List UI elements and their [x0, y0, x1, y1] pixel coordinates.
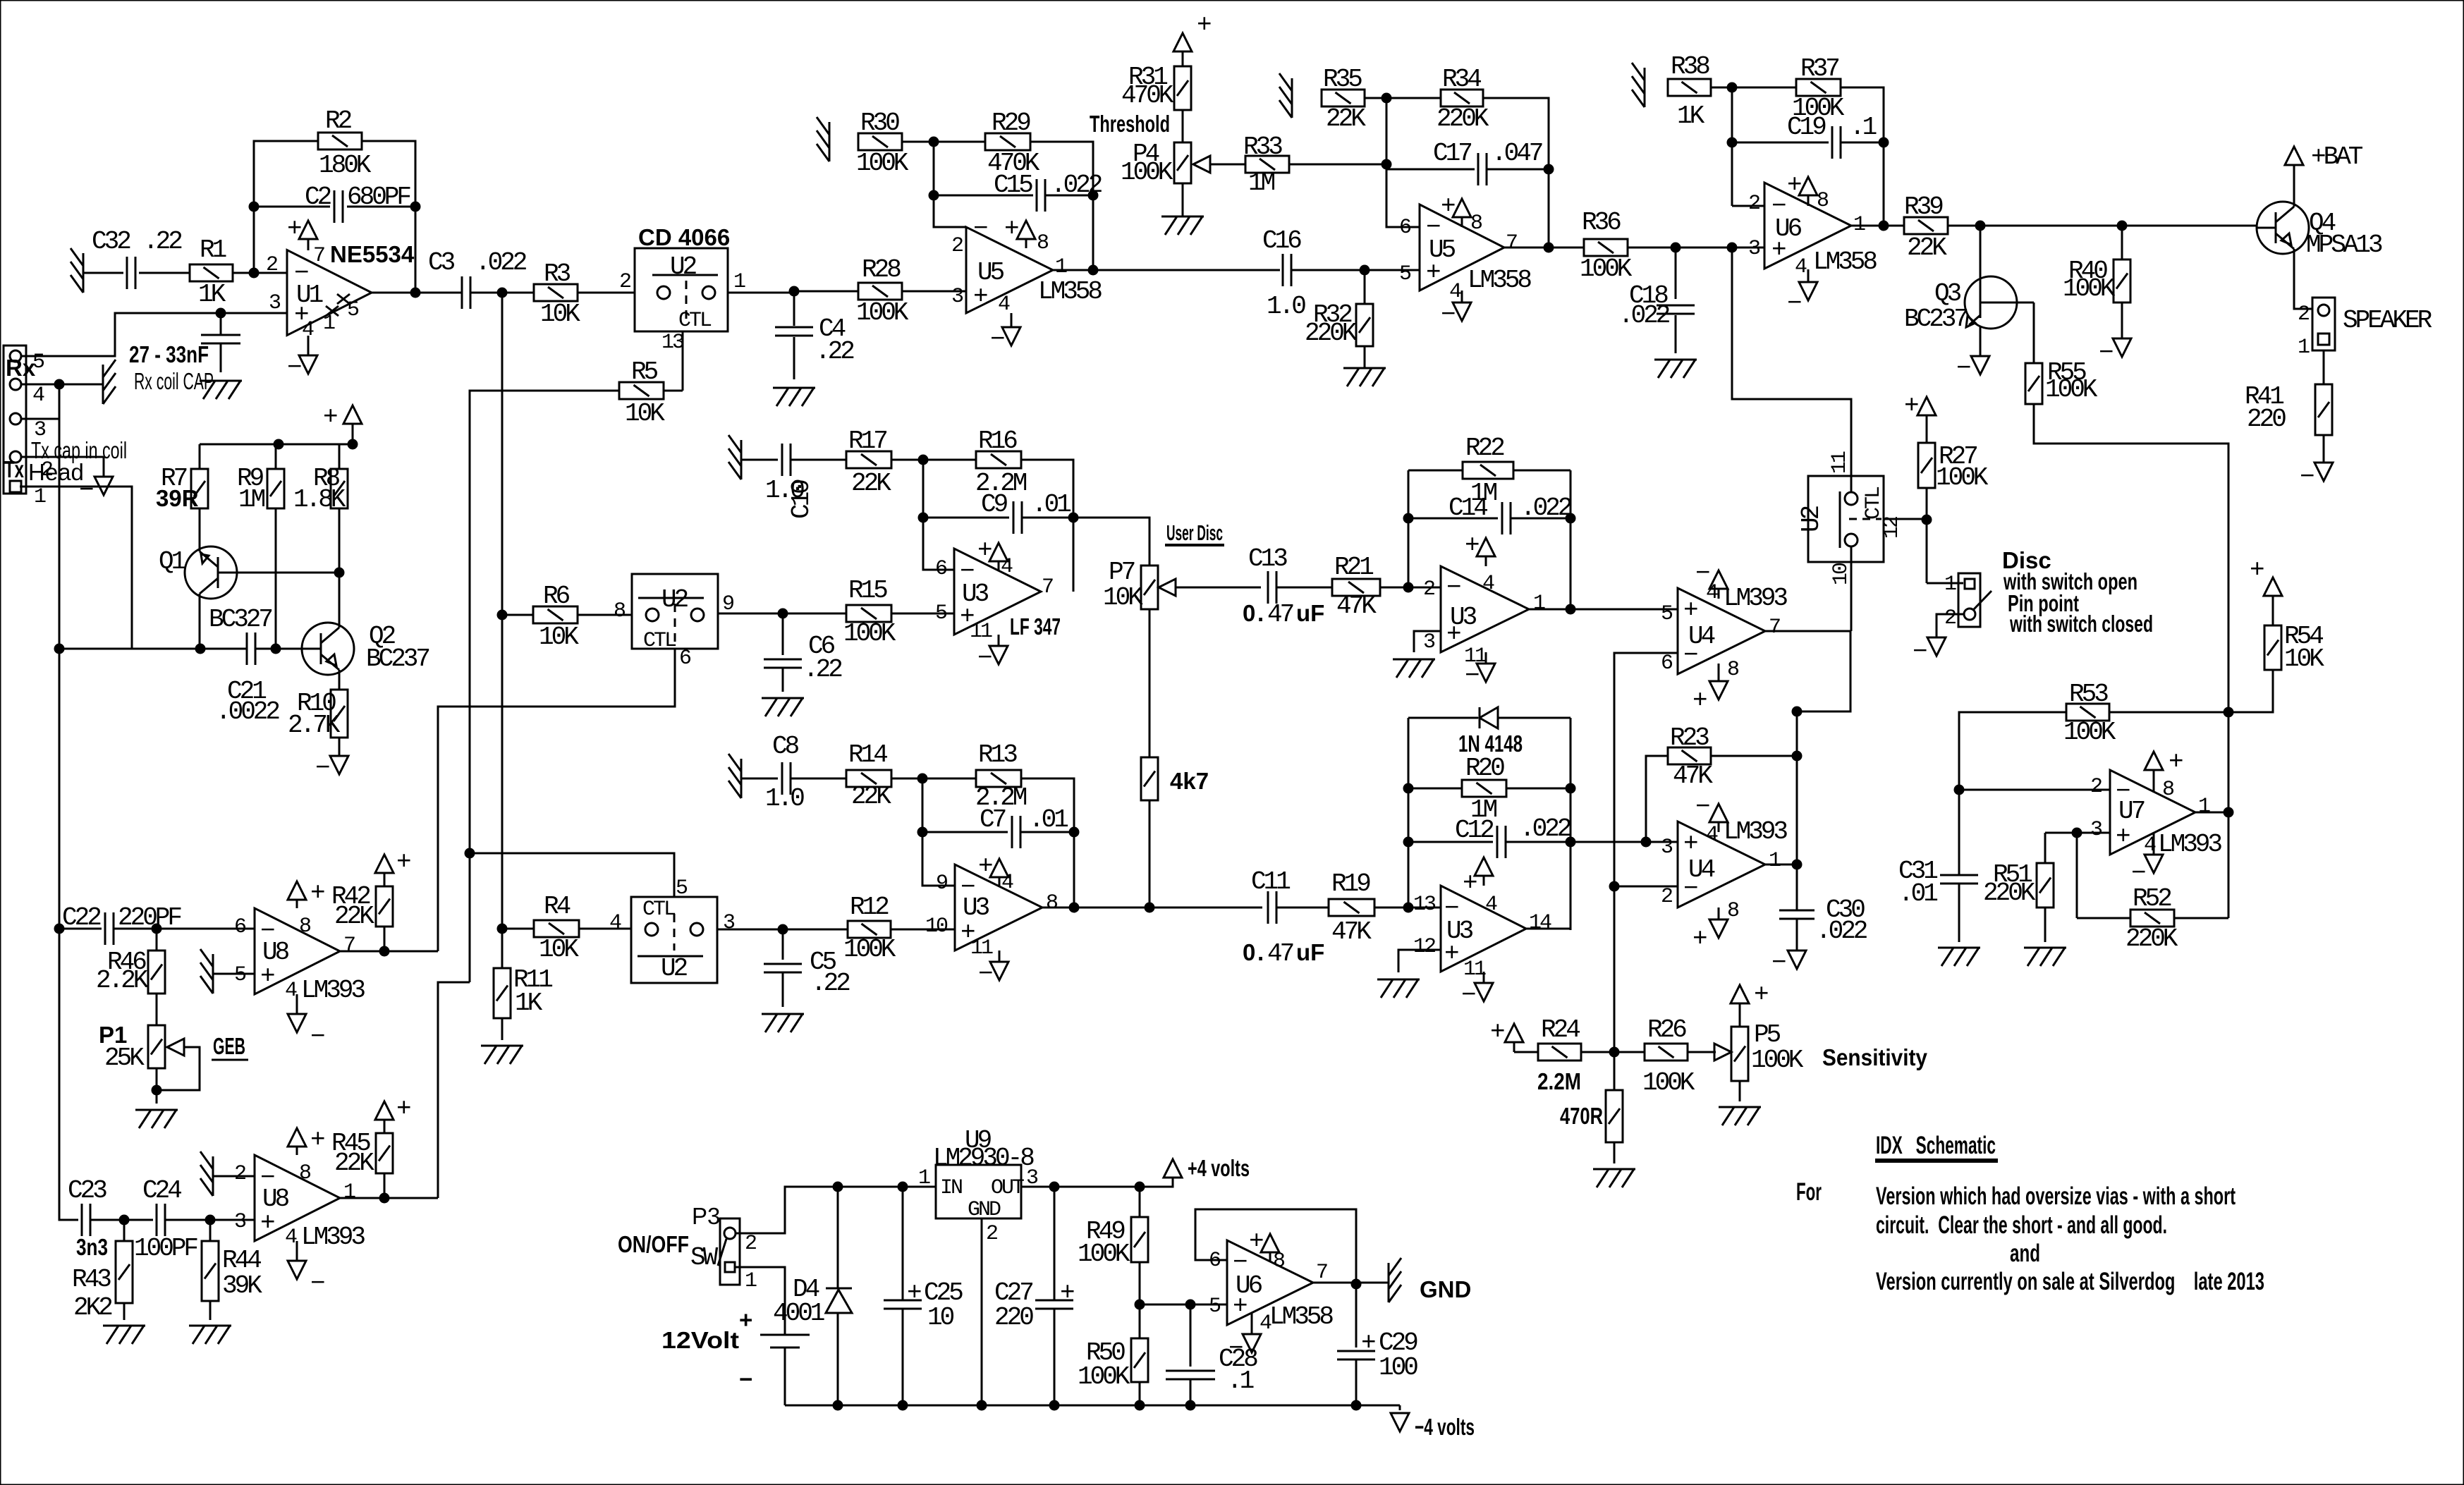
svg-text:Version which had oversize via: Version which had oversize vias - with a… [1876, 1182, 2236, 1210]
svg-text:.22: .22 [143, 227, 182, 256]
junction [1954, 785, 1965, 795]
svg-text:0: 0 [1243, 939, 1255, 965]
svg-text:.22: .22 [815, 337, 854, 366]
U3d V+ [1483, 876, 1485, 886]
capacitor C21 [246, 632, 248, 665]
svg-text:LM393: LM393 [1724, 817, 1787, 846]
transistor Q1 BC327 [185, 546, 237, 599]
svg-text:+: + [907, 1278, 921, 1307]
svg-text:8: 8 [299, 1161, 311, 1185]
svg-text:R21: R21 [1334, 553, 1373, 582]
svg-text:100K: 100K [1121, 158, 1173, 187]
svg-text:3: 3 [2090, 818, 2102, 842]
capacitor C16 [1282, 254, 1284, 286]
junction [1403, 783, 1414, 794]
junction [465, 848, 475, 859]
svg-text:6: 6 [1661, 652, 1673, 676]
resistor R30 [858, 133, 902, 150]
svg-text:−: − [1444, 894, 1458, 923]
U4b V- top [1718, 822, 1720, 832]
svg-text:9: 9 [936, 872, 947, 896]
svg-text:R19: R19 [1331, 869, 1370, 898]
svg-text:C11: C11 [1251, 867, 1290, 896]
svg-text:BC237: BC237 [1904, 305, 1967, 334]
R24 V+ arrow [1505, 1024, 1523, 1042]
resistor 4k7 [1141, 757, 1158, 800]
op-amp U6 second [1227, 1240, 1313, 1325]
svg-text:R13: R13 [978, 740, 1017, 769]
svg-text:+: + [1426, 258, 1440, 287]
net C3 vertical [501, 293, 504, 929]
U4a V- top [1718, 589, 1720, 599]
wire P3 pin1 [735, 1267, 785, 1326]
resistor R35 [1322, 90, 1365, 106]
TX V+ arrow [352, 424, 354, 444]
wire R22 right [1513, 470, 1571, 472]
svg-text:+: + [1693, 924, 1707, 953]
svg-text:4001: 4001 [773, 1299, 824, 1328]
svg-text:LM358: LM358 [1468, 266, 1531, 295]
junction [1135, 1300, 1145, 1310]
svg-text:10K: 10K [1103, 583, 1143, 612]
junction [1351, 1279, 1362, 1290]
svg-text:with switch closed: with switch closed [2009, 611, 2153, 637]
svg-text:−: − [973, 214, 987, 243]
resistor R51 [2037, 863, 2054, 908]
wire U4a pin6 [1614, 653, 1678, 1052]
wire base net down [339, 573, 341, 623]
svg-text:C19: C19 [1787, 113, 1826, 142]
svg-text:R35: R35 [1323, 65, 1362, 94]
junction [1641, 837, 1652, 848]
svg-text:+: + [1463, 869, 1477, 898]
junction [1069, 827, 1080, 838]
svg-text:100K: 100K [1078, 1362, 1130, 1391]
wire U1 out [372, 292, 462, 294]
wire U9 out rail [1021, 1178, 1173, 1187]
svg-text:4k7: 4k7 [1170, 768, 1209, 794]
ground C32 [83, 253, 85, 293]
R31 V+ arrow [1182, 51, 1184, 66]
junction [1068, 513, 1079, 523]
svg-text:22K: 22K [334, 1149, 374, 1178]
resistor R7 [191, 469, 208, 508]
svg-text:+: + [977, 536, 992, 565]
U6b V- [1251, 1312, 1253, 1334]
ground U6b out [1388, 1263, 1390, 1302]
wire R32 gnd [1364, 346, 1366, 368]
net U7 out vertical [2228, 712, 2230, 918]
svg-text:100PF: 100PF [134, 1234, 197, 1263]
junction [898, 1182, 908, 1192]
svg-text:C7: C7 [980, 805, 1006, 834]
svg-text:LM358: LM358 [1038, 277, 1102, 306]
svg-text:C23: C23 [68, 1176, 106, 1205]
svg-text:−: − [1461, 981, 1475, 1010]
svg-text:−: − [1683, 641, 1697, 670]
junction [917, 827, 928, 838]
U6b V+ [1269, 1252, 1271, 1262]
svg-text:12: 12 [1880, 517, 1904, 539]
capacitor C23 [81, 1204, 83, 1236]
resistor R41 [2315, 384, 2332, 435]
svg-text:+: + [323, 403, 337, 432]
junction [195, 644, 206, 654]
svg-text:8: 8 [1727, 658, 1739, 682]
wire R52 wires [2077, 917, 2130, 919]
svg-text:R5: R5 [631, 357, 658, 386]
svg-text:4: 4 [998, 293, 1010, 317]
svg-text:8: 8 [299, 915, 311, 939]
wire R13 right [1021, 778, 1074, 908]
wire C12row right [1571, 841, 1678, 843]
wire pin2 [21, 456, 104, 458]
wire Q1 base [237, 572, 339, 574]
wire R16 right [1021, 460, 1073, 592]
ground R43 [103, 1325, 145, 1327]
diode D 1N4148 [1408, 717, 1478, 719]
svg-text:−: − [1465, 661, 1479, 690]
ground P1 [135, 1109, 178, 1111]
svg-text:4: 4 [1482, 572, 1494, 596]
svg-text:11: 11 [970, 936, 993, 960]
svg-text:100K: 100K [843, 619, 896, 648]
P7 wiper [1159, 579, 1176, 596]
svg-text:7: 7 [313, 244, 324, 268]
junction [1135, 1182, 1145, 1192]
junction [1135, 1400, 1145, 1411]
U5b V+ [1461, 217, 1463, 227]
svg-text:.022: .022 [1618, 301, 1670, 330]
svg-text:BC237: BC237 [366, 644, 429, 673]
U4b V+ bot [1718, 908, 1720, 919]
capacitor C13 [1267, 571, 1269, 604]
junction [1544, 243, 1554, 253]
resistor R8 [331, 469, 348, 508]
svg-text:+: + [1904, 391, 1918, 420]
capacitor C7 [922, 831, 1008, 833]
svg-text:4: 4 [1485, 893, 1497, 917]
wire R29 right [1030, 142, 1093, 270]
svg-text:Sensitivity: Sensitivity [1822, 1044, 1928, 1070]
svg-text:−4 volts: −4 volts [1415, 1414, 1475, 1440]
svg-text:10K: 10K [539, 623, 579, 652]
svg-text:100K: 100K [2045, 375, 2098, 404]
net C7 left [922, 778, 955, 886]
svg-text:2: 2 [2298, 302, 2309, 326]
wire U7 pin3 [2045, 832, 2110, 834]
wire U6a pin2 [1732, 205, 1764, 207]
svg-text:1: 1 [1769, 849, 1781, 873]
R45 V+ arrow [384, 1120, 386, 1133]
svg-text:IDX Schematic: IDX Schematic [1876, 1132, 1996, 1159]
U7 V+ [2153, 770, 2155, 793]
wire Q1 emitter [199, 599, 201, 649]
svg-text:U2: U2 [661, 954, 688, 983]
resistor R36 [1584, 239, 1628, 256]
wire U6a out [1851, 225, 1904, 227]
svg-text:R24: R24 [1541, 1015, 1580, 1044]
resistor R49 [1131, 1217, 1148, 1262]
junction [1727, 137, 1738, 148]
svg-text:2: 2 [986, 1222, 997, 1246]
wire P3-rail [736, 1187, 936, 1233]
svg-text:3: 3 [723, 911, 735, 935]
svg-text:C16: C16 [1262, 226, 1301, 255]
junction [1185, 1300, 1196, 1310]
svg-text:220: 220 [994, 1303, 1033, 1332]
wire R51 top [2044, 833, 2047, 863]
wire R12-pin10 [891, 929, 955, 931]
wire R53 right [2109, 711, 2228, 714]
svg-text:12Volt: 12Volt [661, 1327, 739, 1353]
svg-text:P7: P7 [1109, 558, 1135, 587]
junction [119, 1215, 130, 1226]
U4a V+ bot [1718, 664, 1720, 681]
resistor R33 [1245, 156, 1289, 173]
svg-text:.022: .022 [1816, 917, 1867, 946]
svg-text:3n3: 3n3 [76, 1234, 108, 1260]
capacitor C18 [1675, 248, 1677, 299]
svg-text:4: 4 [1260, 1312, 1271, 1336]
wire head row [59, 648, 247, 650]
resistor R34 [1441, 90, 1483, 106]
svg-text:7: 7 [1769, 616, 1780, 640]
svg-text:C32: C32 [92, 227, 130, 256]
svg-text:1.0: 1.0 [1267, 292, 1305, 321]
svg-text:R2: R2 [325, 106, 352, 135]
svg-text:1: 1 [918, 1166, 930, 1190]
svg-text:8: 8 [1046, 891, 1058, 915]
svg-text:100K: 100K [1751, 1046, 1804, 1075]
+4 volts arrow [1164, 1159, 1182, 1178]
ground R30 [829, 122, 831, 161]
svg-text:47K: 47K [1331, 917, 1372, 946]
svg-text:22K: 22K [1907, 233, 1947, 262]
svg-text:ON/OFF: ON/OFF [618, 1231, 689, 1257]
R42 V+ arrow [384, 873, 386, 886]
svg-text:−: − [1228, 1334, 1243, 1363]
svg-text:GND: GND [1420, 1276, 1471, 1302]
svg-text:U2: U2 [670, 252, 697, 281]
svg-text:4: 4 [1706, 823, 1718, 847]
wire P7 down [1149, 609, 1151, 757]
potentiometer P1 [148, 1025, 165, 1068]
wire R39 right [1948, 225, 2257, 227]
svg-text:3: 3 [1661, 836, 1673, 860]
svg-text:100K: 100K [1078, 1240, 1130, 1269]
resistor R29 [985, 133, 1030, 150]
junction [1145, 903, 1155, 913]
resistor R39 [1904, 217, 1948, 234]
wire R55 down [2034, 404, 2228, 712]
resistor R19 [1329, 899, 1374, 916]
svg-text:12: 12 [1413, 935, 1435, 959]
wire R52 left [2076, 833, 2078, 918]
svg-text:C17: C17 [1433, 139, 1471, 168]
svg-text:10K: 10K [2284, 644, 2324, 673]
wire pin4 [21, 384, 103, 386]
resistor R10 [331, 690, 348, 738]
op-amp U5 first [966, 227, 1053, 313]
svg-text:Tx: Tx [4, 456, 24, 482]
wire C22 row [59, 928, 102, 930]
capacitor C28 [1190, 1304, 1192, 1367]
wire R31-P4 [1182, 110, 1184, 142]
ground U8b pin2 [212, 1156, 214, 1196]
svg-text:13: 13 [661, 331, 684, 355]
op-amp U4 first [1678, 588, 1765, 674]
junction [1566, 837, 1576, 848]
svg-text:R36: R36 [1582, 208, 1621, 237]
svg-text:+: + [1361, 1328, 1375, 1357]
junction [334, 568, 345, 578]
svg-text:User Disc: User Disc [1166, 520, 1223, 545]
transistor Q4 MPSA13 [2257, 202, 2309, 254]
junction [1403, 582, 1414, 593]
svg-text:+: + [739, 1307, 752, 1333]
svg-text:6: 6 [1399, 216, 1411, 240]
svg-text:R43: R43 [72, 1265, 111, 1294]
svg-text:−: − [2099, 338, 2113, 367]
C30 V- arrow [1788, 951, 1806, 969]
junction [410, 202, 421, 212]
U8a V- [296, 994, 298, 1014]
svg-text:22K: 22K [851, 469, 891, 498]
svg-text:22K: 22K [334, 902, 374, 931]
resistor R50 [1131, 1338, 1148, 1382]
junction [497, 288, 508, 298]
svg-text:8: 8 [1470, 212, 1482, 236]
capacitor C25 [902, 1187, 904, 1300]
wire R14-R13 [891, 778, 976, 780]
ground R51 [2024, 947, 2066, 949]
capacitor C22 [104, 912, 106, 945]
U6a V- [1807, 269, 1810, 282]
svg-text:uF: uF [1296, 600, 1324, 626]
svg-text:10K: 10K [539, 935, 579, 964]
svg-text:47K: 47K [1673, 762, 1713, 790]
capacitor C29 [1355, 1284, 1358, 1347]
svg-text:and: and [2010, 1240, 2040, 1267]
wire Q4 emitter [2294, 254, 2312, 309]
wire R28-U5 [902, 291, 966, 293]
junction [2072, 828, 2082, 838]
wire R11 gnd [501, 1018, 504, 1040]
svg-text:−: − [79, 476, 93, 505]
junction [1922, 515, 1932, 525]
svg-text:+: + [1197, 11, 1211, 39]
wire R36 right [1628, 247, 1764, 249]
resistor R23 [1668, 747, 1711, 764]
net R53 left [1959, 712, 2066, 874]
svg-text:CD 4066: CD 4066 [638, 224, 730, 250]
op-amp U4 second [1678, 821, 1765, 908]
wire R37 right [1841, 87, 1884, 226]
svg-text:220: 220 [2247, 405, 2286, 434]
svg-text:+: + [287, 214, 301, 243]
junction [54, 924, 65, 934]
svg-text:5: 5 [234, 963, 246, 987]
diode D4 1N4001 [837, 1187, 839, 1288]
svg-text:+: + [1693, 686, 1707, 715]
wire U6a pin3 [1676, 247, 1764, 249]
svg-text:BC327: BC327 [209, 605, 272, 634]
wire R26-P5 [1688, 1051, 1716, 1053]
svg-text:3: 3 [1748, 237, 1760, 261]
wire U3d pin12 gnd [1398, 950, 1441, 972]
junction [1975, 221, 1986, 231]
svg-text:7: 7 [1042, 575, 1053, 599]
svg-text:.: . [1257, 600, 1264, 626]
svg-text:7: 7 [343, 934, 355, 958]
junction [379, 1193, 390, 1204]
wire R9 down [275, 508, 277, 649]
U8a V+ [296, 900, 298, 908]
svg-text:OUT: OUT [991, 1176, 1024, 1200]
resistor R17 [846, 451, 891, 468]
junction [205, 1215, 216, 1226]
svg-text:.: . [1257, 939, 1264, 965]
capacitor C17 [1386, 169, 1475, 171]
junction [1566, 783, 1576, 794]
svg-text:220K: 220K [1437, 104, 1489, 133]
ground P4 [1161, 216, 1204, 218]
wire U9 gnd [981, 1218, 983, 1405]
resistor R53 [2066, 704, 2109, 721]
junction [152, 1085, 162, 1096]
svg-text:+: + [1787, 171, 1801, 200]
junction [898, 1400, 908, 1411]
wire R44 gnd [209, 1301, 212, 1320]
svg-text:100: 100 [1379, 1353, 1417, 1382]
svg-text:5: 5 [1209, 1295, 1221, 1319]
svg-text:+: + [260, 1209, 274, 1237]
svg-text:Version currently on sale at S: Version currently on sale at Silverdog l… [1876, 1268, 2264, 1295]
wire disc sw pin2 [1937, 614, 1964, 637]
ground U3c [1393, 659, 1435, 661]
svg-text:10K: 10K [540, 300, 580, 329]
svg-text:−: − [287, 353, 301, 382]
wire U2c pin5 [470, 853, 674, 897]
capacitor C12 [1408, 841, 1493, 843]
svg-text:3: 3 [269, 291, 281, 315]
svg-text:+: + [2116, 822, 2130, 851]
resistor R28 [858, 283, 902, 300]
wire R46-P1 [156, 994, 158, 1025]
svg-text:R39: R39 [1904, 192, 1943, 221]
svg-text:−: − [960, 557, 974, 586]
+BAT arrow [2285, 147, 2303, 165]
capacitor C9 [923, 517, 1009, 519]
junction [789, 286, 800, 297]
wire R5 right [664, 390, 683, 392]
junction [497, 924, 508, 934]
svg-text:+: + [1771, 236, 1786, 264]
svg-text:+: + [1060, 1278, 1074, 1307]
svg-text:14: 14 [1529, 911, 1551, 935]
svg-text:47K: 47K [1336, 592, 1377, 621]
wire C23 row left [59, 929, 78, 1220]
P4 wiper [1193, 156, 1210, 173]
svg-text:MPSA13: MPSA13 [2306, 231, 2382, 259]
svg-text:6: 6 [935, 557, 947, 581]
U8b V- [296, 1241, 298, 1261]
svg-text:+: + [1754, 980, 1768, 1009]
wire R19-U3d [1374, 907, 1441, 909]
ground R44 [189, 1325, 231, 1327]
svg-text:U2: U2 [661, 585, 688, 614]
